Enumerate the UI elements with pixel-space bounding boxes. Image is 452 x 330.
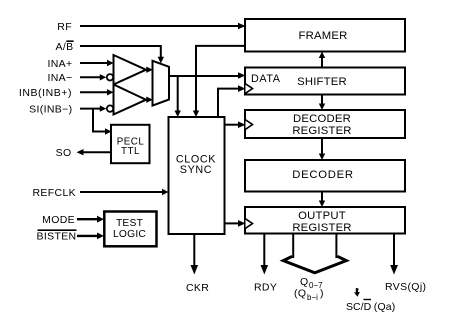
svg-text:DECODER: DECODER: [292, 169, 353, 181]
mux: [153, 61, 170, 106]
label Q0-7: [294, 276, 324, 302]
label A/B-bar: [56, 41, 74, 53]
wire CLOCK SYNC to SHIFTER clock: [218, 85, 246, 117]
wire SI with bubble: [80, 105, 113, 111]
svg-text:TTL: TTL: [121, 146, 140, 157]
block DECODER REGISTER: [245, 110, 405, 138]
svg-text:SHIFTER: SHIFTER: [297, 76, 347, 88]
wire FRAMER feedback to CLOCK SYNC: [193, 46, 245, 117]
svg-text:DATA: DATA: [251, 73, 281, 85]
wire SHIFTER to FRAMER: [319, 52, 325, 68]
svg-text:SO: SO: [56, 147, 72, 159]
wire CLOCK SYNC to OUTPUT REGISTER clock: [225, 220, 246, 227]
svg-text:TEST: TEST: [116, 218, 144, 229]
wire CLOCK SYNC to DECODER REGISTER clock: [225, 121, 246, 128]
label SC/D-bar (Qa): [346, 300, 395, 314]
block TEST LOGIC: [104, 212, 156, 247]
label RVS(Qj): [385, 281, 426, 293]
svg-text:SI(INB−): SI(INB−): [29, 103, 72, 115]
svg-text:Q: Q: [300, 276, 309, 288]
svg-text:b−i: b−i: [307, 293, 318, 302]
block DECODER: [245, 160, 405, 192]
svg-text:SC/D: SC/D: [346, 301, 372, 313]
wire INA- with bubble: [80, 74, 113, 80]
wire SHIFTER to DECODER REGISTER: [319, 95, 325, 111]
wire buffer A to mux: [146, 67, 153, 73]
comparator buffer A: [114, 55, 147, 85]
wire BISTEN to TEST LOGIC: [77, 233, 104, 240]
wire CLOCK SYNC to CKR: [191, 234, 199, 275]
svg-text:RF: RF: [57, 21, 72, 33]
wire DECODER to OUTPUT REGISTER: [319, 192, 325, 208]
svg-text:FRAMER: FRAMER: [299, 30, 348, 42]
wire mux output to SHIFTER data: [169, 72, 246, 79]
wire buffer B to mux: [146, 97, 153, 103]
svg-text:): ): [320, 288, 324, 300]
svg-text:INB(INB+): INB(INB+): [19, 87, 72, 99]
svg-text:CKR: CKR: [186, 282, 209, 294]
svg-text:REGISTER: REGISTER: [292, 125, 351, 137]
block FRAMER: [245, 19, 405, 52]
svg-text:REFCLK: REFCLK: [32, 187, 76, 199]
svg-text:A/B: A/B: [56, 41, 74, 53]
wire SI tap to PECL TTL: [93, 109, 112, 135]
wire data tap to CLOCK SYNC: [175, 76, 181, 117]
comparator buffer B: [114, 85, 147, 115]
label BISTEN-bar: [36, 230, 76, 243]
bus arrow Q0-7: [283, 234, 346, 273]
wire REFCLK to CLOCK SYNC: [80, 189, 169, 195]
block CLOCK SYNC: [169, 117, 225, 234]
arrow SC/D output: [353, 288, 360, 297]
svg-text:INA−: INA−: [47, 72, 72, 84]
svg-text:MODE: MODE: [42, 214, 75, 226]
wire RF to FRAMER: [80, 23, 246, 29]
svg-text:(Qa): (Qa): [374, 301, 396, 313]
wire A/B to mux select: [80, 46, 164, 64]
svg-text:RVS(Qj): RVS(Qj): [385, 281, 426, 293]
block OUTPUT REGISTER: [245, 207, 405, 234]
block SHIFTER: [245, 68, 405, 95]
svg-text:DECODER: DECODER: [293, 113, 351, 125]
wire INA+: [80, 60, 114, 66]
wire PECL TTL to SO: [77, 149, 112, 155]
svg-text:SYNC: SYNC: [180, 164, 212, 176]
svg-text:INA+: INA+: [47, 58, 72, 70]
wire MODE to TEST LOGIC: [77, 216, 104, 223]
svg-text:OUTPUT: OUTPUT: [298, 210, 346, 222]
block PECL TTL: [111, 125, 150, 163]
wire OUTPUT REGISTER to RDY: [261, 234, 269, 275]
wire OUTPUT REGISTER to RVS: [390, 234, 398, 275]
svg-text:(Q: (Q: [294, 288, 306, 300]
svg-text:RDY: RDY: [254, 282, 277, 294]
svg-text:BISTEN: BISTEN: [36, 231, 76, 243]
svg-text:LOGIC: LOGIC: [113, 229, 146, 240]
svg-text:REGISTER: REGISTER: [292, 222, 351, 234]
wire INB+: [80, 89, 114, 95]
wire DECODER REGISTER to DECODER: [319, 138, 325, 160]
